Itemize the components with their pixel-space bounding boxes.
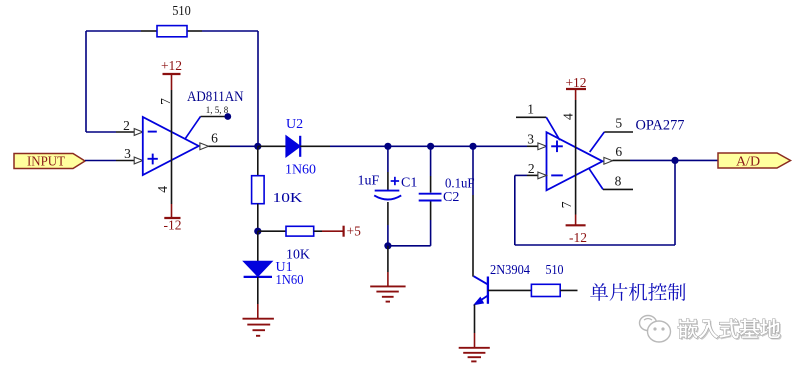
wire pin2 net	[86, 131, 116, 133]
svg-text:8: 8	[615, 173, 622, 188]
AD811AN power rail through line	[171, 90, 173, 204]
op-amp OPA277 output pin 6 arrow	[604, 157, 613, 164]
capacitor C2 pin top	[430, 146, 432, 192]
svg-text:7: 7	[559, 201, 574, 208]
wire junction to Q collector	[472, 146, 474, 195]
resistor 510 feedback pins	[141, 30, 202, 32]
wire to A/D port	[675, 159, 718, 161]
power +5	[322, 224, 361, 239]
node output junction	[254, 143, 261, 150]
op-amp output stub	[209, 145, 231, 147]
op-amp minus input marker	[148, 131, 157, 133]
svg-text:C1: C1	[401, 175, 417, 190]
svg-text:+12: +12	[565, 75, 586, 90]
power +12 (AD811AN)	[161, 58, 182, 90]
OPA277 plus marker	[551, 141, 563, 153]
svg-text:+5: +5	[347, 224, 362, 239]
resistor 10K (vertical)	[252, 176, 265, 204]
svg-text:510: 510	[546, 263, 564, 278]
wire pin3 net	[85, 160, 116, 162]
op-amp AD811AN pin 2 stub	[116, 129, 143, 136]
pins 1,5,8 node dot	[224, 113, 231, 120]
watermark text 嵌入式基地	[678, 319, 782, 340]
ground (below Q)	[459, 333, 490, 361]
svg-text:-12: -12	[569, 230, 587, 245]
svg-text:1, 5, 8: 1, 5, 8	[206, 105, 229, 115]
wire output to junction	[230, 145, 258, 147]
resistor 510 base pin right	[560, 289, 577, 291]
svg-text:10K: 10K	[273, 191, 303, 206]
resistor 10K vertical pin bottom	[257, 204, 259, 232]
node A/D junction	[671, 157, 678, 164]
capacitor C1 pin top	[387, 146, 389, 190]
wire rail C2 to Q	[431, 145, 473, 147]
power -12 (AD811AN)	[164, 204, 182, 233]
svg-text:+12: +12	[161, 58, 182, 73]
op-amp plus input marker	[148, 154, 158, 165]
svg-text:3: 3	[527, 131, 534, 146]
op-amp U? AD811AN body	[143, 117, 199, 175]
capacitor C2 pin bottom	[430, 202, 432, 221]
wire OPA277 output	[630, 159, 675, 161]
watermark logo	[640, 316, 671, 343]
wire feedback up to pin2	[515, 175, 527, 245]
wire feedback top-left segment	[86, 30, 141, 32]
svg-text:A/D: A/D	[736, 154, 760, 169]
svg-text:4: 4	[155, 186, 170, 193]
svg-text:AD811AN: AD811AN	[187, 89, 244, 105]
resistor 510 (feedback)	[157, 26, 187, 37]
svg-text:6: 6	[615, 144, 622, 159]
diode U2 pin right	[300, 145, 330, 147]
diode U2 pin left	[258, 145, 286, 147]
resistor 10K (to +5)	[286, 226, 314, 236]
transistor collector lead	[472, 195, 474, 277]
svg-text:5: 5	[615, 116, 622, 131]
svg-text:4: 4	[560, 113, 575, 120]
svg-text:7: 7	[158, 98, 173, 105]
pin 1 stub	[516, 117, 560, 140]
node C1 bottom junction	[384, 242, 391, 249]
svg-text:2: 2	[528, 161, 535, 176]
svg-text:C2: C2	[443, 190, 459, 205]
wire rail to OPA277 pin3	[473, 145, 527, 147]
node C2 junction	[427, 143, 434, 150]
OPA277 minus marker	[551, 174, 563, 176]
ground (below U1)	[243, 304, 274, 336]
diode U2 1N60	[286, 136, 300, 157]
svg-text:2N3904: 2N3904	[490, 263, 530, 278]
wire feedback top-right segment	[202, 30, 258, 32]
svg-text:6: 6	[211, 131, 218, 146]
svg-text:510: 510	[172, 4, 191, 19]
resistor 10K horizontal pin left	[258, 230, 286, 232]
svg-text:-12: -12	[164, 218, 182, 233]
svg-text:INPUT: INPUT	[27, 155, 65, 170]
capacitor C1 1uF	[374, 191, 401, 200]
port A/D	[718, 153, 791, 169]
label 单片机控制 (MCU control)	[590, 283, 685, 301]
wire C1 bottom to C2 bottom	[388, 220, 431, 246]
op-amp output pin 6 arrow	[200, 143, 209, 150]
OPA277 output stub	[613, 159, 631, 161]
svg-text:U2: U2	[286, 117, 303, 132]
wire feedback right vertical	[257, 31, 259, 146]
port INPUT	[14, 154, 85, 170]
pin 5 stub	[590, 132, 633, 152]
diode U1 pin top	[257, 231, 259, 261]
wire feedback left vertical	[85, 31, 87, 132]
svg-text:2: 2	[123, 118, 130, 133]
transistor emitter lead	[474, 305, 476, 334]
power -12 (OPA277)	[566, 215, 587, 246]
OPA277 power rail through line	[575, 100, 577, 215]
power +12 (OPA277)	[565, 75, 586, 100]
resistor 10K horizontal pin right	[314, 230, 322, 232]
wire feedback down	[674, 160, 676, 245]
capacitor C1 pin bottom	[387, 202, 389, 246]
svg-text:1N60: 1N60	[276, 273, 304, 288]
wire rail U2 to C1	[330, 145, 388, 147]
svg-text:1uF: 1uF	[358, 173, 380, 188]
svg-text:OPA277: OPA277	[636, 118, 685, 134]
pins 1,5,8 tie line	[185, 117, 225, 140]
svg-text:1N60: 1N60	[285, 163, 316, 178]
transistor Q? 2N3904	[474, 276, 488, 304]
pin 8 stub	[589, 169, 633, 190]
svg-text:3: 3	[124, 146, 131, 161]
wire C1 junction to ground	[387, 246, 389, 272]
wire rail C1 to C2	[388, 145, 431, 147]
op-amp AD811AN pin 3 stub	[116, 157, 143, 164]
wire feedback bottom	[515, 244, 675, 246]
capacitor C1 polarity +	[391, 177, 399, 185]
resistor 10K vertical pin top	[257, 146, 259, 176]
node divider junction	[254, 228, 261, 235]
op-amp OPA277 pin 3 stub	[527, 143, 547, 150]
svg-text:1: 1	[527, 102, 534, 117]
diode U1 1N60	[244, 261, 272, 277]
node transistor branch junction	[469, 143, 476, 150]
diode U1 pin bottom	[257, 277, 259, 304]
resistor 510 (base)	[531, 284, 560, 296]
op-amp OPA277 pin 2 stub	[527, 172, 547, 179]
ground (below C1)	[370, 272, 405, 302]
op-amp U? OPA277 body	[547, 132, 603, 190]
node C1 junction	[384, 143, 391, 150]
transistor base lead	[488, 289, 532, 291]
capacitor C2 0.1uF	[419, 194, 442, 201]
